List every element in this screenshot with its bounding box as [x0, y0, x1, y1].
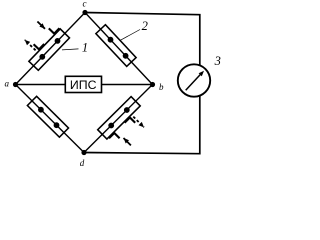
wire meter bottom to d [84, 96, 200, 154]
node c [82, 10, 87, 15]
wire arm c-b [85, 13, 153, 85]
strain gauge 1 (arm a-c): dashed strain arrow [25, 40, 36, 51]
strain gauge (arm b-d): terminal dot [124, 107, 130, 113]
svg-text:1: 1 [82, 40, 88, 54]
svg-text:3: 3 [214, 54, 221, 68]
strain gauge (arm b-d): upper lead chevron [109, 133, 120, 138]
svg-text:2: 2 [142, 19, 148, 33]
node b [150, 82, 155, 87]
IPS power-supply box [65, 76, 101, 92]
strain gauge (arm b-d): terminal dot [108, 123, 114, 129]
node d [81, 150, 86, 155]
wire c to meter top [85, 13, 200, 66]
strain gauge 2 (arm c-b): terminal dot [123, 53, 129, 59]
strain gauge (arm a-d): terminal dot [54, 122, 60, 128]
strain gauge (arm a-d): body rectangle [27, 96, 68, 137]
galvanometer 3: circle [178, 64, 210, 96]
strain gauge 1 (arm a-c): terminal dot [39, 54, 45, 60]
wire arm b-d [84, 85, 153, 153]
leader line for label 2 [121, 30, 141, 41]
svg-text:b: b [159, 82, 164, 92]
leader line for label 1 [62, 49, 79, 50]
wire IPS box to b [102, 84, 153, 86]
strain gauge 1 (arm a-c): terminal dot [55, 38, 61, 44]
svg-text:c: c [83, 0, 87, 8]
strain gauge 2 (arm c-b): terminal dot [108, 37, 114, 43]
strain gauge 1 (arm a-c): lower lead chevron [34, 44, 45, 49]
svg-text:a: a [5, 79, 10, 89]
svg-text:ИПС: ИПС [70, 78, 97, 92]
wire a to IPS box [16, 84, 66, 86]
svg-text:d: d [80, 158, 85, 168]
strain gauge (arm b-d): dashed strain arrow [133, 117, 144, 128]
strain gauge (arm b-d): body rectangle [98, 97, 141, 139]
strain gauge 2 (arm c-b): body rectangle [96, 25, 136, 67]
wire arm a-d [16, 85, 85, 153]
strain gauge 1 (arm a-c): solid strain arrow [37, 22, 45, 29]
strain gauge 1 (arm a-c): upper lead chevron [49, 28, 60, 33]
strain gauge 1 (arm a-c): body rectangle [29, 29, 70, 70]
strain gauge (arm a-d): terminal dot [38, 107, 44, 113]
strain gauge (arm b-d): lower lead chevron [125, 118, 136, 123]
wire arm a-c [16, 13, 86, 85]
galvanometer 3: needle arrow [186, 73, 202, 90]
node a [13, 82, 18, 87]
strain gauge (arm b-d): solid strain arrow [124, 138, 131, 145]
